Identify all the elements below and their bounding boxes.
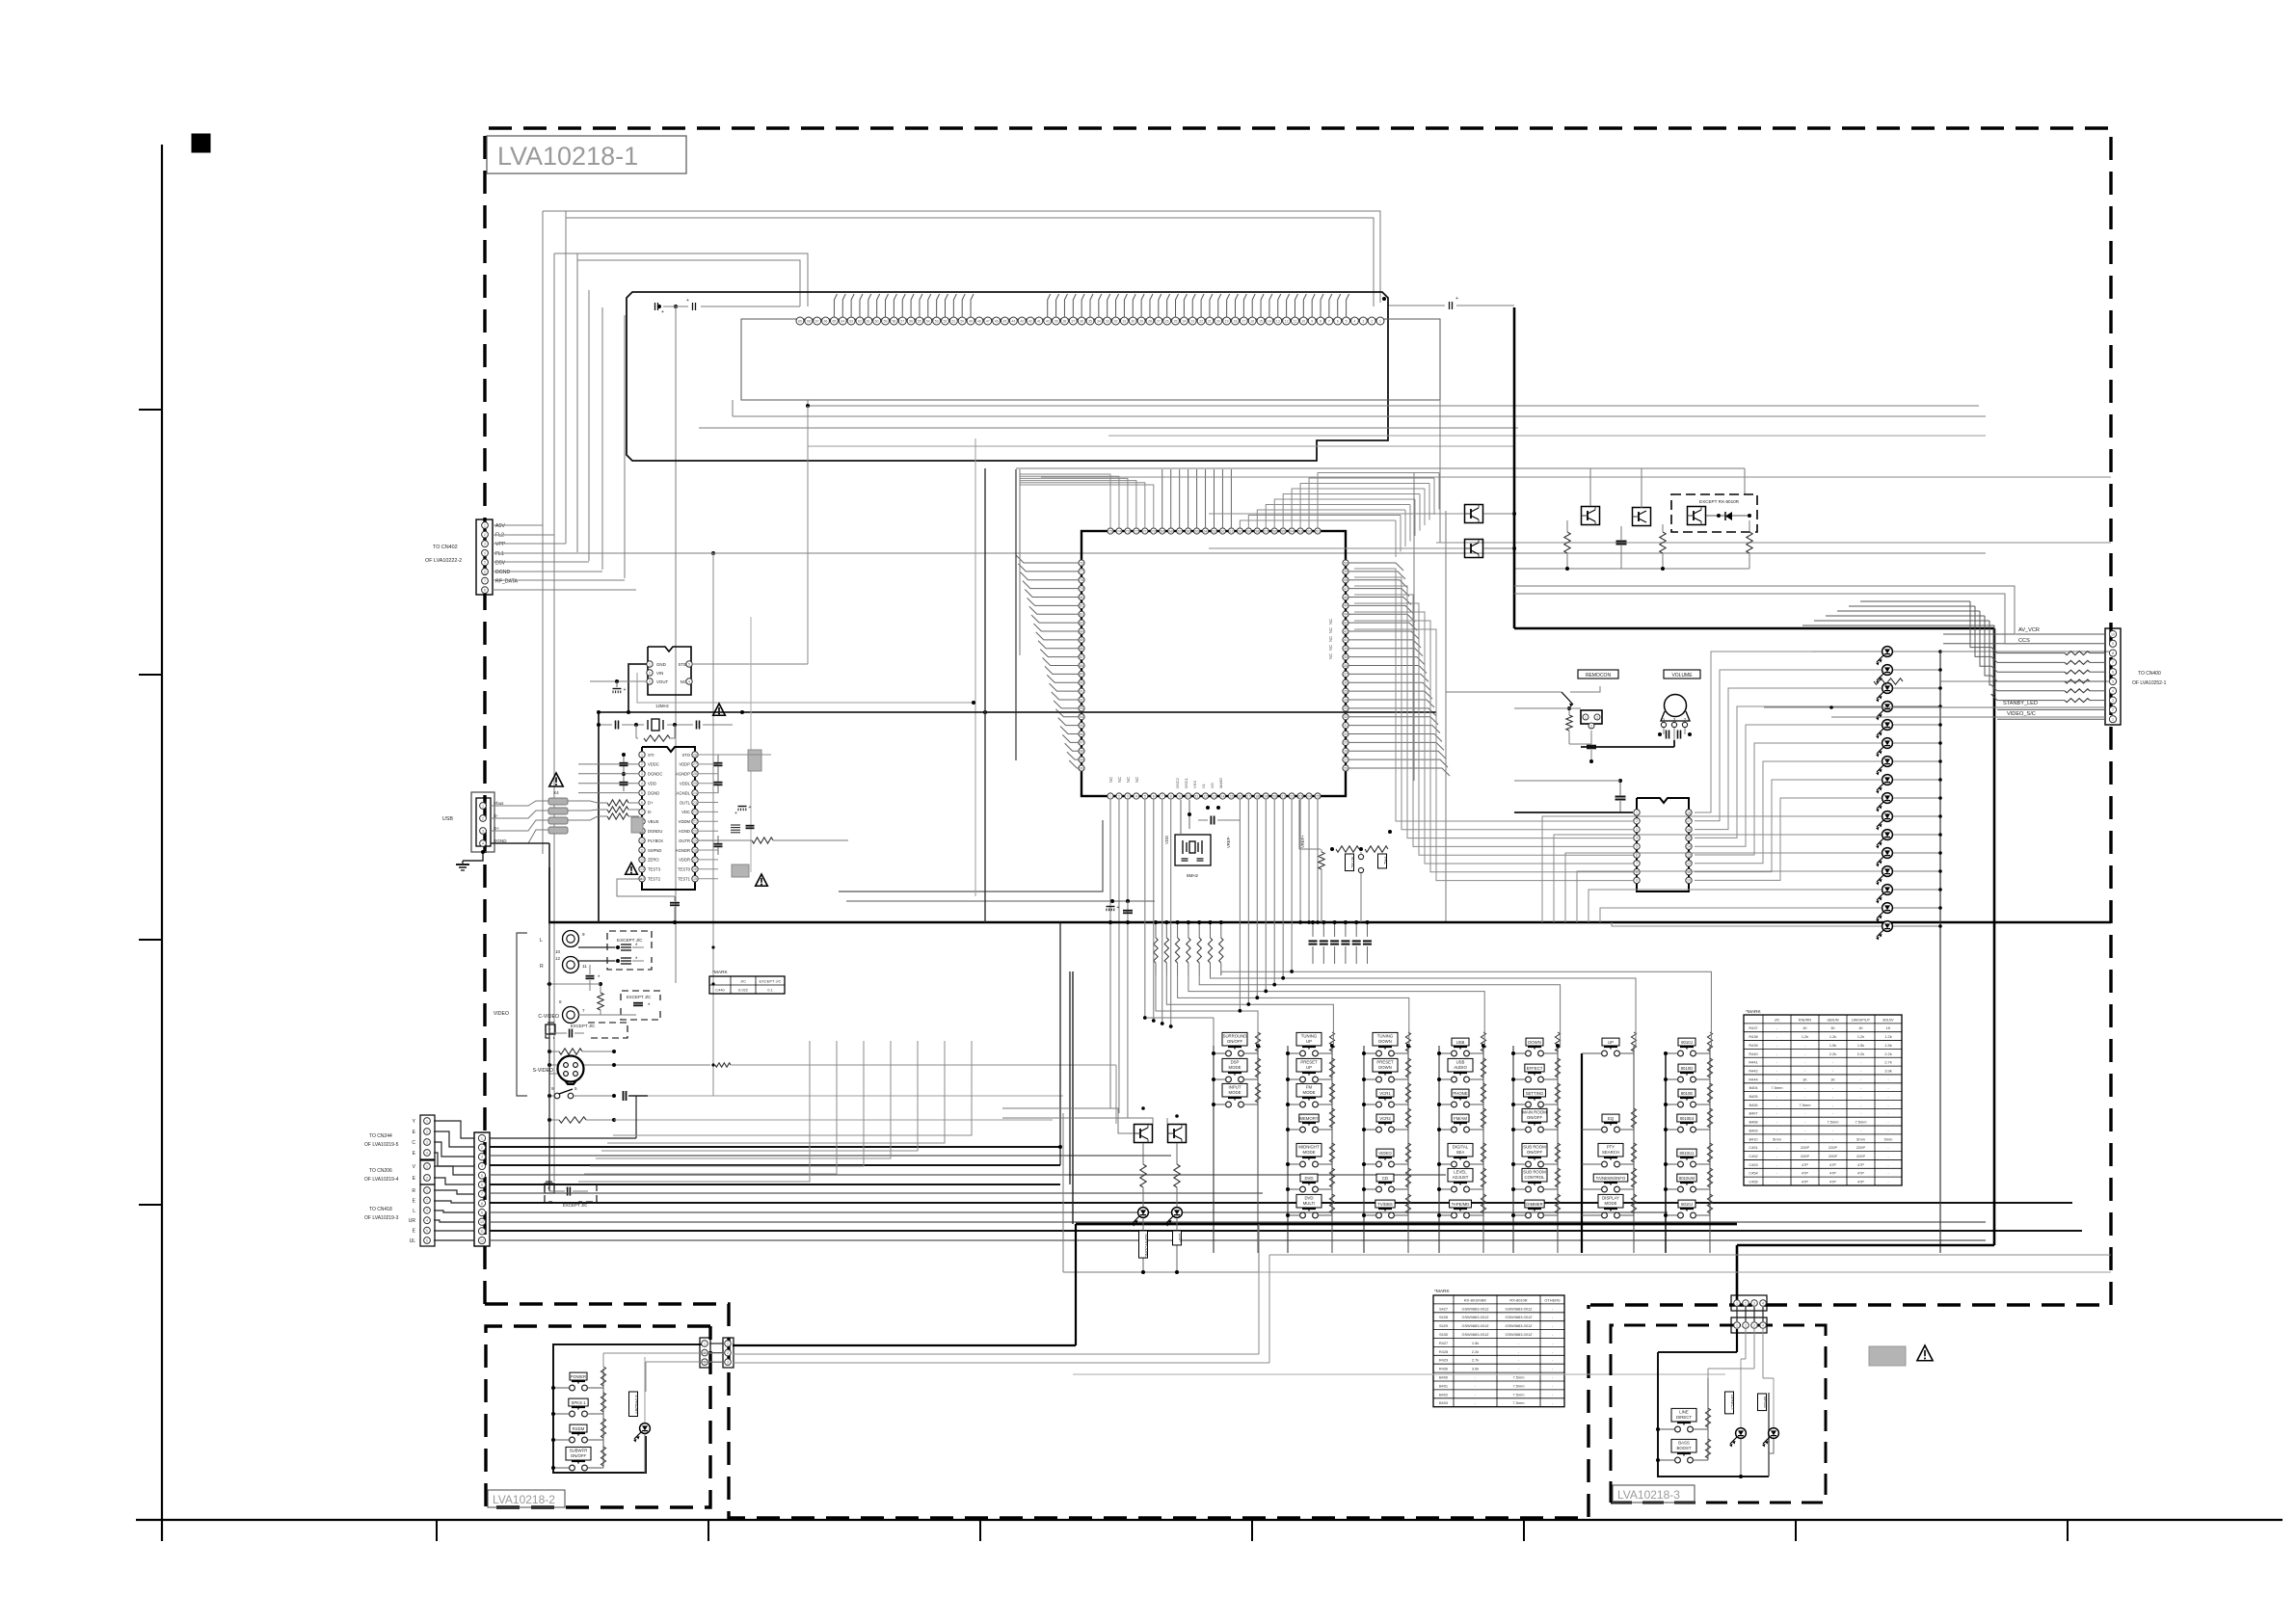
svg-text:DOWN: DOWN — [1528, 1040, 1541, 1045]
LED driver IC702 DIP body — [1637, 798, 1689, 891]
page frame bottom border line — [136, 1519, 2283, 1521]
svg-text:1.2k: 1.2k — [1884, 1034, 1891, 1039]
ceramic cap on rail — [1123, 910, 1133, 912]
svg-text:47P: 47P — [1802, 1171, 1808, 1176]
svg-text:6: 6 — [1337, 319, 1339, 323]
svg-text:NC: NC — [1108, 777, 1113, 783]
svg-text:UB/UN: UB/UN — [1827, 1017, 1838, 1022]
svg-text:10: 10 — [640, 838, 644, 842]
svg-text:OF LVA10219-3: OF LVA10219-3 — [364, 1215, 399, 1221]
svg-text:GSW0883-001Z: GSW0883-001Z — [1505, 1332, 1533, 1337]
push switch DSP MODE — [1226, 1077, 1232, 1082]
thick power bus y=739 — [599, 711, 1436, 713]
VIDEO group bracket — [517, 933, 527, 1096]
push switch UP — [1602, 1051, 1608, 1056]
svg-text:1: 1 — [484, 523, 486, 527]
svg-text:95: 95 — [1080, 724, 1083, 728]
svg-text:3: 3 — [426, 1140, 428, 1144]
svg-text:SEA: SEA — [1456, 1150, 1465, 1155]
svg-text:3: 3 — [1753, 1323, 1755, 1327]
crystal feed caps — [615, 721, 617, 730]
svg-text:66: 66 — [824, 319, 828, 323]
wire top run 4 — [577, 260, 800, 306]
svg-text:NC: NC — [1328, 653, 1333, 659]
svg-text:DGND: DGND — [495, 570, 511, 575]
svg-text:5: 5 — [574, 1086, 577, 1091]
svg-text:31: 31 — [1123, 319, 1127, 323]
svg-text:57: 57 — [900, 319, 904, 323]
resistor to ground NTSC net — [1319, 852, 1324, 869]
column resistor chain — [1255, 1032, 1260, 1051]
NTSC/PAL select resistors — [1336, 846, 1359, 852]
svg-text:6: 6 — [1636, 853, 1638, 857]
svg-text:76: 76 — [1080, 561, 1083, 565]
svg-text:1: 1 — [2112, 718, 2114, 722]
wires CN402 pins to risers — [493, 524, 543, 526]
svg-text:B403: B403 — [1439, 1400, 1448, 1405]
svg-text:FM/AM: FM/AM — [1454, 1116, 1467, 1121]
svg-text:17: 17 — [1241, 319, 1245, 323]
svg-text:60: 60 — [875, 319, 879, 323]
LED D713 — [1882, 885, 1893, 895]
svg-text:3: 3 — [482, 829, 484, 833]
label NTSC vertical boxed — [1346, 854, 1354, 871]
svg-text:1: 1 — [727, 1342, 729, 1345]
svg-text:D+: D+ — [648, 800, 654, 805]
svg-text:18: 18 — [693, 848, 697, 852]
4-pin connector lower — [1731, 1317, 1767, 1333]
svg-text:16: 16 — [1250, 319, 1254, 323]
svg-text:4: 4 — [482, 841, 484, 845]
svg-text:90: 90 — [1080, 681, 1083, 685]
svg-text:VOLUME: VOLUME — [1671, 673, 1693, 678]
wires out of connector right — [733, 1344, 1076, 1346]
svg-text:79: 79 — [1080, 587, 1083, 591]
svg-text:R: R — [412, 1188, 415, 1194]
svg-text:48: 48 — [1344, 578, 1348, 582]
svg-text:18: 18 — [1687, 811, 1691, 814]
svg-text:14: 14 — [1687, 845, 1691, 849]
svg-text:46: 46 — [995, 319, 999, 323]
svg-text:DVD: DVD — [1304, 1195, 1313, 1200]
svg-text:2: 2 — [426, 1199, 428, 1203]
svg-text:9: 9 — [1179, 794, 1181, 798]
push switch TA/NEWS/INFO — [1602, 1186, 1608, 1192]
svg-text:47P: 47P — [1857, 1171, 1864, 1176]
star mark box option 3 — [546, 1024, 555, 1034]
svg-text:68: 68 — [807, 319, 811, 323]
svg-text:INPUT: INPUT — [1229, 1084, 1241, 1089]
svg-text:TEST0: TEST0 — [678, 867, 691, 872]
svg-text:85: 85 — [1080, 638, 1083, 642]
svg-text:8010D: 8010D — [1681, 1066, 1694, 1071]
audio jack L (RCA) — [563, 931, 579, 947]
svg-text:71: 71 — [1143, 529, 1147, 533]
display pin lead comb right group — [1048, 294, 1051, 317]
svg-text:47P: 47P — [1857, 1180, 1864, 1184]
svg-text:9: 9 — [582, 932, 585, 937]
svg-text:GSW0883-001Z: GSW0883-001Z — [1461, 1332, 1489, 1337]
LED D710 — [1882, 830, 1893, 840]
svg-text:MODE: MODE — [1605, 1201, 1617, 1206]
wire DGND run to ground bus — [491, 842, 549, 844]
svg-text:21: 21 — [1208, 319, 1212, 323]
svg-text:35: 35 — [1344, 689, 1348, 693]
svg-text:DVD: DVD — [1304, 1176, 1313, 1181]
svg-text:30: 30 — [1344, 732, 1348, 736]
svg-text:AGNDL: AGNDL — [677, 790, 691, 795]
svg-text:MODE: MODE — [1229, 1090, 1241, 1095]
jumper 8010UM — [1678, 1186, 1684, 1192]
svg-text:2: 2 — [484, 533, 486, 537]
svg-text:45: 45 — [1003, 319, 1007, 323]
svg-text:PRESET: PRESET — [1376, 1059, 1394, 1064]
svg-text:Vbus: Vbus — [494, 801, 504, 806]
LED D705 — [1882, 738, 1893, 749]
warning triangle below IC802 left — [626, 863, 638, 874]
FL display module outline DSP1 — [627, 292, 1388, 461]
jumper 8010U1 — [1678, 1161, 1684, 1167]
svg-text:TO CN402: TO CN402 — [433, 545, 458, 550]
IC701 bottom pin drops 1-3 — [1109, 800, 1111, 1108]
svg-text:GSW0883-001Z: GSW0883-001Z — [1505, 1315, 1533, 1319]
feed wires STANBY/VIDEO from left — [1764, 706, 2105, 708]
svg-text:SUB ROOM: SUB ROOM — [1523, 1144, 1546, 1149]
svg-text:53: 53 — [1298, 529, 1302, 533]
svg-text:11: 11 — [582, 964, 587, 969]
svg-text:LVA10218-2: LVA10218-2 — [493, 1493, 555, 1506]
svg-text:EXCEPT J/C: EXCEPT J/C — [759, 978, 781, 983]
svg-text:NC: NC — [1328, 627, 1333, 633]
svg-text:22: 22 — [1199, 319, 1203, 323]
svg-text:27: 27 — [1344, 758, 1348, 761]
svg-text:28: 28 — [1148, 319, 1152, 323]
svg-text:S430: S430 — [1439, 1332, 1449, 1337]
svg-text:25: 25 — [693, 782, 697, 785]
svg-text:2.2k: 2.2k — [1857, 1051, 1864, 1056]
label STANDBY vertical boxed — [629, 1392, 638, 1416]
thick return bus under matrix — [1076, 1223, 1737, 1226]
encoder common wire down — [1673, 740, 1675, 747]
svg-text:7.5mm: 7.5mm — [1772, 1085, 1783, 1090]
svg-text:5mm: 5mm — [1884, 1136, 1893, 1141]
svg-text:R427: R427 — [1439, 1341, 1448, 1345]
push switch FM MODE — [1300, 1102, 1306, 1107]
svg-text:5: 5 — [426, 1229, 428, 1233]
wire run 1426 — [1073, 1373, 1725, 1375]
svg-text:2: 2 — [641, 762, 643, 766]
wire top run 2 — [566, 218, 1374, 306]
svg-text:ZERO: ZERO — [648, 858, 659, 863]
svg-text:8010V: 8010V — [1882, 1017, 1894, 1022]
svg-text:59: 59 — [884, 319, 888, 323]
svg-text:NC: NC — [1328, 636, 1333, 642]
push switch MEMORY — [1300, 1127, 1306, 1132]
svg-text:13: 13 — [1213, 794, 1216, 798]
svg-text:1.5k: 1.5k — [1829, 1043, 1836, 1048]
svg-text:B400: B400 — [1439, 1375, 1449, 1380]
svg-text:TUNING: TUNING — [1377, 1033, 1394, 1038]
svg-text:98: 98 — [1080, 750, 1083, 754]
svg-text:OUTL: OUTL — [680, 800, 691, 805]
svg-text:8: 8 — [481, 1202, 483, 1206]
wire junction at display pin 1 — [1382, 297, 1386, 301]
top bus corner jogs above IC701 (left fan) — [1020, 474, 1110, 528]
svg-text:+: + — [1117, 905, 1120, 911]
IC701 right pin stair bundle — [1348, 563, 1403, 571]
svg-text:47P: 47P — [1802, 1162, 1808, 1167]
svg-text:8: 8 — [1170, 794, 1172, 798]
extra scan rail for transistor drivers — [1147, 1017, 1214, 1019]
svg-text:GSW0883-001Z: GSW0883-001Z — [1461, 1323, 1489, 1328]
svg-text:3: 3 — [1753, 1301, 1755, 1305]
svg-text:7: 7 — [484, 579, 486, 583]
svg-text:STANDBY: STANDBY — [634, 1395, 639, 1414]
svg-text:B405: B405 — [1749, 1094, 1757, 1099]
svg-text:1: 1 — [482, 804, 484, 808]
svg-text:88: 88 — [1080, 664, 1083, 668]
svg-text:1: 1 — [649, 662, 651, 666]
electrolytic cap on rail — [1107, 906, 1115, 908]
svg-text:ADJUST: ADJUST — [1453, 1175, 1469, 1180]
push switch VCR1 — [1376, 1102, 1382, 1107]
svg-text:VREF-: VREF- — [1226, 836, 1231, 848]
svg-text:8010E4: 8010E4 — [1680, 1116, 1695, 1121]
rotary encoder VOLUME — [1665, 695, 1687, 717]
svg-text:100: 100 — [1079, 766, 1084, 770]
bias cap — [1616, 541, 1627, 543]
svg-text:220P: 220P — [1801, 1145, 1809, 1150]
svg-text:PLYBCK: PLYBCK — [648, 838, 663, 843]
electrolytic near VREF — [738, 806, 747, 808]
svg-text:91: 91 — [1080, 689, 1083, 693]
ground bus thick horizontal — [548, 921, 2111, 924]
scan line junction dots from IC701 pins — [1291, 800, 1293, 971]
resistor video 75ohm — [559, 1049, 582, 1054]
IC701 bottom pin drops 23-25 — [1299, 800, 1301, 922]
svg-text:42: 42 — [1028, 319, 1032, 323]
svg-text:220P: 220P — [1801, 1154, 1809, 1158]
svg-text:220P: 220P — [1856, 1145, 1865, 1150]
svg-text:5: 5 — [1346, 319, 1348, 323]
svg-text:TA/NEWS/INFO: TA/NEWS/INFO — [1596, 1176, 1626, 1181]
svg-text:29: 29 — [1344, 741, 1348, 745]
4-pin connector upper — [1731, 1295, 1767, 1311]
wires remocon/volume to left — [1446, 691, 1562, 693]
svg-text:VDDC: VDDC — [648, 762, 659, 767]
svg-text:7.5mm: 7.5mm — [1513, 1392, 1525, 1397]
gray component block right of crystal — [748, 750, 761, 771]
push switch EFFECT — [1526, 1077, 1532, 1082]
svg-text:5: 5 — [2112, 679, 2114, 683]
board name label LVA10218-1 — [487, 136, 686, 173]
svg-text:VDD: VDD — [1164, 836, 1169, 844]
svg-text:11: 11 — [1294, 319, 1297, 323]
svg-text:D-: D- — [494, 813, 498, 818]
svg-text:15: 15 — [1259, 319, 1263, 323]
svg-text:UP: UP — [1608, 1040, 1614, 1045]
svg-text:CCS: CCS — [2018, 638, 2030, 644]
svg-text:47P: 47P — [1802, 1180, 1808, 1184]
sensor pull resistor — [1566, 715, 1572, 731]
option cap in box 3 — [569, 1029, 571, 1038]
svg-text:4: 4 — [426, 1219, 428, 1223]
bus wires QFP to IC702 nested corners — [1354, 569, 1633, 821]
thick standby power path — [1513, 307, 1516, 628]
svg-text:DOWN: DOWN — [1378, 1039, 1392, 1044]
svg-text:9: 9 — [1636, 879, 1638, 883]
left decoupling caps column for IC802 — [620, 762, 628, 764]
dark rail under USB section — [548, 867, 550, 922]
svg-text:22: 22 — [693, 811, 697, 814]
key matrix column at x=1515 — [1438, 1046, 1440, 1253]
svg-text:AUDIO: AUDIO — [1454, 1065, 1467, 1070]
svg-text:B402: B402 — [1439, 1392, 1448, 1397]
svg-text:*MARK: *MARK — [712, 970, 729, 975]
svg-text:10: 10 — [1187, 794, 1190, 798]
svg-text:61: 61 — [1229, 529, 1233, 533]
svg-text:5: 5 — [641, 791, 643, 795]
wires IC802 right pins out — [698, 754, 718, 756]
LED D402 BASS — [1769, 1428, 1779, 1439]
svg-text:21: 21 — [693, 820, 697, 824]
svg-text:VIDEO: VIDEO — [1378, 1151, 1392, 1156]
svg-text:NC: NC — [1126, 777, 1131, 783]
input series resistors R8xx x3 — [607, 800, 628, 806]
connector pair 3-pin between boards — [700, 1338, 710, 1368]
svg-text:0.022: 0.022 — [738, 987, 749, 992]
wire VPP run right — [577, 552, 713, 554]
svg-text:TO CN418: TO CN418 — [369, 1207, 392, 1212]
push switch BASS BOOST — [1675, 1457, 1681, 1463]
svg-text:44: 44 — [1344, 613, 1348, 617]
svg-text:2: 2 — [1118, 794, 1120, 798]
svg-text:8: 8 — [559, 999, 562, 1004]
svg-text:45: 45 — [1344, 604, 1348, 608]
svg-text:RX-8010R: RX-8010R — [1509, 1297, 1527, 1302]
svg-text:16: 16 — [1687, 828, 1691, 832]
svg-text:15: 15 — [1229, 794, 1233, 798]
svg-text:1: 1 — [1585, 715, 1587, 719]
svg-text:47P: 47P — [1829, 1162, 1836, 1167]
svg-text:220P: 220P — [1856, 1154, 1865, 1158]
svg-text:8: 8 — [2112, 652, 2114, 655]
capacitor C (electrolytic) 2 near display — [692, 303, 694, 310]
LED D801 SURROUND — [1138, 1208, 1149, 1218]
svg-text:99: 99 — [1080, 758, 1083, 761]
svg-text:47P: 47P — [1857, 1162, 1864, 1167]
svg-text:BASS: BASS — [1678, 1440, 1690, 1445]
svg-text:1: 1 — [426, 1164, 428, 1168]
wire jack R to cap net — [578, 946, 615, 948]
column resistor chain — [1329, 1032, 1334, 1051]
svg-text:FM: FM — [1306, 1084, 1313, 1089]
svg-text:1: 1 — [426, 1119, 428, 1123]
svg-text:UP: UP — [1306, 1039, 1312, 1044]
svg-text:8010J: 8010J — [1681, 1202, 1693, 1207]
svg-text:69: 69 — [1161, 529, 1164, 533]
svg-text:41: 41 — [1344, 638, 1348, 642]
svg-text:VPP: VPP — [495, 542, 506, 547]
svg-text:27: 27 — [1157, 319, 1161, 323]
stair bundle into CN400 — [1970, 601, 1997, 653]
svg-text:48: 48 — [977, 319, 981, 323]
svg-text:6: 6 — [426, 1238, 428, 1242]
svg-text:TO CN400: TO CN400 — [2138, 671, 2161, 677]
svg-text:NC: NC — [1135, 777, 1139, 783]
svg-text:93: 93 — [1080, 706, 1083, 710]
svg-text:31: 31 — [1344, 724, 1348, 728]
svg-text:24: 24 — [1307, 794, 1311, 798]
svg-text:42: 42 — [1344, 629, 1348, 633]
transistor Q7xx boxed 3 — [1582, 507, 1600, 525]
jumper 8010E4 — [1678, 1127, 1684, 1132]
jog wires from groups to CN2 — [434, 1121, 474, 1138]
svg-text:21: 21 — [1281, 794, 1285, 798]
svg-text:MEMORY: MEMORY — [1299, 1116, 1318, 1121]
capacitor C (electrolytic) right of display pin 1 — [1449, 302, 1451, 309]
svg-text:SPKS 1: SPKS 1 — [571, 1400, 586, 1405]
push switch PTY SEARCH — [1602, 1161, 1608, 1167]
svg-text:18: 18 — [1255, 794, 1259, 798]
svg-text:78: 78 — [1080, 578, 1083, 582]
svg-text:59: 59 — [1246, 529, 1250, 533]
wire bus from CN402 rising to top runs — [542, 211, 544, 526]
column 6 resistor chain — [1633, 1046, 1635, 1253]
svg-text:C: C — [412, 1140, 415, 1146]
svg-text:RSDM: RSDM — [573, 1426, 585, 1431]
svg-text:96: 96 — [1080, 732, 1083, 736]
svg-text:9: 9 — [1311, 319, 1313, 323]
key matrix column at x=1437 — [1363, 1046, 1365, 1253]
svg-text:1.2k: 1.2k — [1829, 1034, 1836, 1039]
long wire run y=1320 — [1259, 1271, 2111, 1273]
svg-text:23: 23 — [1190, 319, 1194, 323]
driver transistor Q1 boxed — [1135, 1125, 1153, 1143]
svg-text:74: 74 — [1117, 529, 1121, 533]
LED D714 — [1882, 903, 1893, 914]
svg-text:54: 54 — [926, 319, 930, 323]
svg-text:5mm: 5mm — [1856, 1136, 1865, 1141]
svg-text:12: 12 — [640, 858, 644, 862]
svg-text:DIGITAL: DIGITAL — [1453, 1144, 1469, 1149]
svg-text:16: 16 — [1238, 794, 1241, 798]
svg-text:GSW0883-001Z: GSW0883-001Z — [1461, 1315, 1489, 1319]
svg-text:RX-8010VBK: RX-8010VBK — [1464, 1297, 1487, 1302]
svg-text:51: 51 — [951, 319, 955, 323]
svg-text:ON/OFF: ON/OFF — [1227, 1039, 1243, 1044]
push switch SUB ROOM ON/OFF — [1526, 1161, 1532, 1167]
svg-text:23: 23 — [693, 801, 697, 805]
push switch TAPE/MD — [1452, 1212, 1457, 1218]
long mid horizontal bus wires — [808, 405, 1979, 407]
svg-text:28: 28 — [1344, 750, 1348, 754]
svg-text:MULTI: MULTI — [1303, 1201, 1316, 1206]
svg-text:4: 4 — [1636, 837, 1638, 840]
svg-text:OTHERS: OTHERS — [1544, 1297, 1561, 1302]
svg-text:19: 19 — [693, 838, 697, 842]
svg-text:R/E/RN: R/E/RN — [1799, 1017, 1811, 1022]
svg-text:6: 6 — [1153, 794, 1155, 798]
push switch FM/AM — [1452, 1127, 1457, 1132]
push switch SETTING — [1526, 1102, 1532, 1107]
svg-text:17: 17 — [1246, 794, 1250, 798]
svg-text:24: 24 — [1182, 319, 1186, 323]
svg-text:+: + — [1455, 296, 1458, 302]
key matrix column at x=1358 — [1287, 1046, 1289, 1253]
svg-text:3: 3 — [481, 1156, 483, 1159]
svg-text:2.7k: 2.7k — [1884, 1060, 1891, 1065]
